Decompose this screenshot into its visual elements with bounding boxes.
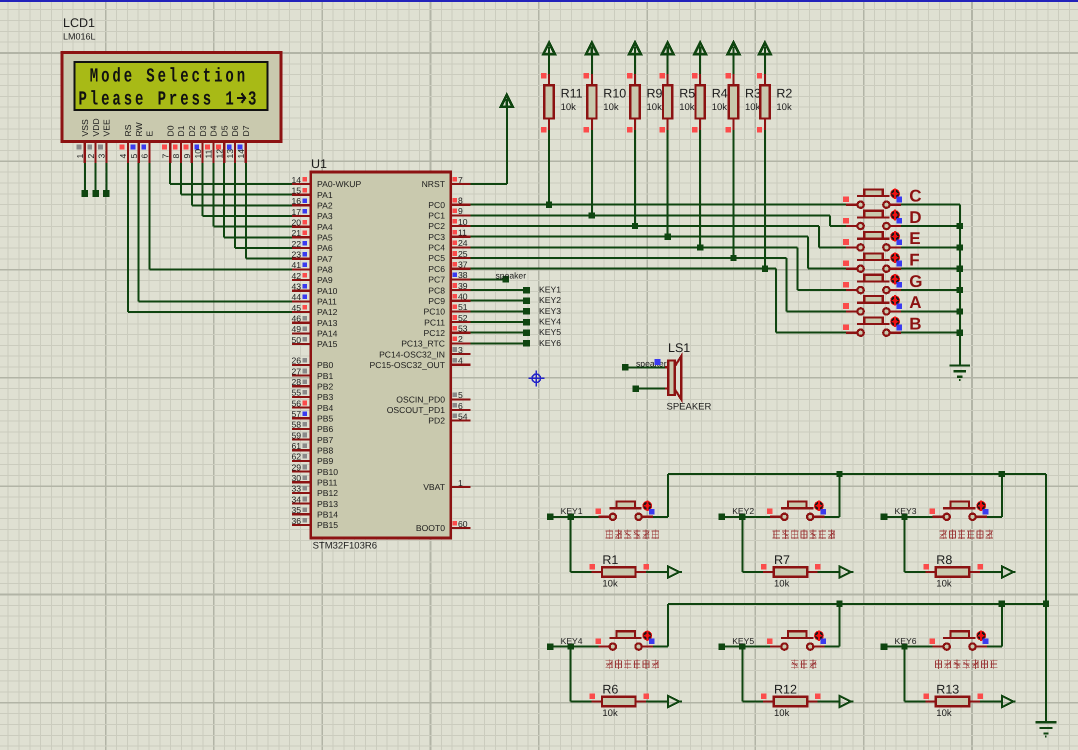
svg-text:46: 46 <box>291 314 301 324</box>
svg-text:PB10: PB10 <box>317 467 338 477</box>
svg-text:D4: D4 <box>209 125 219 136</box>
sheet border (top blue line) <box>0 0 1078 2</box>
wire PC4 to button row 4 <box>471 246 798 248</box>
button E <box>846 246 857 248</box>
svg-text:26: 26 <box>291 356 301 366</box>
pin 39 PC8 <box>451 289 471 291</box>
pin 23 PA7 <box>292 258 311 260</box>
svg-text:17: 17 <box>291 207 301 217</box>
svg-text:e: e <box>180 66 188 89</box>
pin 54 PD2 <box>451 419 471 421</box>
svg-text:PB1: PB1 <box>317 371 333 381</box>
pin 52 PC11 <box>451 321 471 323</box>
pin 24 PC4 <box>451 246 471 248</box>
svg-text:VBAT: VBAT <box>423 482 446 492</box>
svg-text:10k: 10k <box>776 102 792 113</box>
svg-text:PA11: PA11 <box>317 297 337 307</box>
svg-text:R5: R5 <box>679 87 695 101</box>
wire button B to bus <box>901 332 960 334</box>
svg-text:50: 50 <box>291 335 301 345</box>
svg-text:PA0-WKUP: PA0-WKUP <box>317 179 362 189</box>
svg-text:21: 21 <box>291 228 301 238</box>
pin 62 PB9 <box>292 460 311 462</box>
svg-text:B: B <box>909 315 921 334</box>
resistor R5 10k (vertical, pull-up) <box>662 43 674 55</box>
wire PC3 to button row 3 <box>471 236 809 238</box>
wire PC0 to button C <box>471 204 847 206</box>
pin 37 PC6 <box>451 268 471 270</box>
wire KEY1 to bus <box>653 516 668 518</box>
label KEY1 function (chinese) <box>606 530 613 539</box>
label KEY6 function (chinese) <box>935 660 942 669</box>
svg-text:PC10: PC10 <box>424 307 446 317</box>
svg-text:35: 35 <box>291 505 301 515</box>
svg-text:41: 41 <box>291 260 301 270</box>
svg-text:VDD: VDD <box>91 118 101 136</box>
svg-text:R9: R9 <box>647 87 663 101</box>
svg-text:61: 61 <box>291 441 301 451</box>
svg-text:U1: U1 <box>311 157 327 171</box>
svg-text:10: 10 <box>458 217 468 227</box>
svg-text:PB0: PB0 <box>317 360 333 370</box>
bus KEY4-KEY6 <box>668 603 1046 605</box>
svg-text:PC14-OSC32_IN: PC14-OSC32_IN <box>379 349 445 359</box>
svg-text:PA1: PA1 <box>317 190 333 200</box>
svg-text:10k: 10k <box>936 708 952 719</box>
resistor R8 10k <box>904 517 906 572</box>
svg-text:G: G <box>909 272 922 291</box>
svg-text:R11: R11 <box>561 87 583 101</box>
pin 43 PA10 <box>292 290 311 292</box>
svg-text:13: 13 <box>225 149 235 159</box>
pin 51 PC10 <box>451 310 471 312</box>
svg-text:28: 28 <box>291 377 301 387</box>
pin 3 PC14-OSC32_IN <box>451 353 471 355</box>
svg-text:PB11: PB11 <box>317 478 338 488</box>
origin marker <box>528 370 544 386</box>
wire KEY5 to bus <box>825 646 840 648</box>
wire D4 to PA4 <box>212 163 214 227</box>
svg-text:R1: R1 <box>602 553 618 567</box>
wire D0 to PA0 <box>169 163 171 184</box>
svg-text:NRST: NRST <box>422 179 446 189</box>
svg-text:PA4: PA4 <box>317 222 333 232</box>
button C <box>846 204 857 206</box>
svg-text:D5: D5 <box>219 125 229 136</box>
svg-text:5: 5 <box>129 154 139 159</box>
pin 56 PB4 <box>292 407 311 409</box>
wire RW to PA11 <box>138 163 140 301</box>
pin 60 BOOT0 <box>451 527 471 529</box>
svg-text:R7: R7 <box>774 553 790 567</box>
svg-text:s: s <box>203 89 211 112</box>
svg-text:33: 33 <box>291 484 301 494</box>
svg-text:9: 9 <box>458 206 463 216</box>
resistor R10 10k (vertical, pull-up) <box>586 43 598 55</box>
button G <box>846 289 857 291</box>
resistor R12 10k <box>741 647 743 702</box>
svg-text:7: 7 <box>458 175 463 185</box>
net label speaker (PC7) <box>471 278 506 280</box>
ground (buttons) <box>949 365 970 367</box>
svg-text:PA8: PA8 <box>317 265 333 275</box>
svg-text:speaker: speaker <box>496 270 527 280</box>
key button KEY3 <box>881 514 888 521</box>
svg-text:KEY4: KEY4 <box>539 317 561 327</box>
svg-text:LM016L: LM016L <box>63 32 96 42</box>
svg-text:t: t <box>203 66 211 89</box>
svg-text:PC0: PC0 <box>428 200 445 210</box>
svg-text:10k: 10k <box>679 102 695 113</box>
wire button D to bus <box>901 225 960 227</box>
svg-text:e: e <box>124 66 132 89</box>
svg-text:R4: R4 <box>712 87 728 101</box>
svg-text:6: 6 <box>140 154 150 159</box>
svg-text:12: 12 <box>214 149 224 159</box>
svg-text:PC3: PC3 <box>428 232 445 242</box>
svg-text:s: s <box>192 89 200 112</box>
svg-text:PA10: PA10 <box>317 286 338 296</box>
svg-text:PC9: PC9 <box>428 296 445 306</box>
svg-text:KEY6: KEY6 <box>895 636 917 646</box>
svg-text:57: 57 <box>291 409 301 419</box>
resistor R11 10k (vertical, pull-up) <box>543 43 555 55</box>
svg-text:P: P <box>79 89 87 112</box>
svg-text:E: E <box>909 229 920 248</box>
pin 11 PC3 <box>451 236 471 238</box>
wire NRST <box>506 107 508 184</box>
button A <box>846 310 857 312</box>
ground (keys) <box>1036 721 1057 723</box>
svg-text:KEY5: KEY5 <box>732 636 754 646</box>
svg-text:R8: R8 <box>936 553 952 567</box>
svg-text:PC7: PC7 <box>428 275 445 285</box>
pin 8 PC0 <box>451 204 471 206</box>
power arrow for NRST <box>501 95 513 107</box>
svg-text:e: e <box>135 89 143 112</box>
net label KEY2 (PC9) <box>471 300 527 302</box>
svg-text:l: l <box>90 89 98 112</box>
pin 6 OSCOUT_PD1 <box>451 409 471 411</box>
resistor R6 10k <box>570 647 572 702</box>
svg-text:44: 44 <box>291 292 301 302</box>
pin 61 PB8 <box>292 449 311 451</box>
svg-text:30: 30 <box>291 473 301 483</box>
wire PC2 to button row 2 <box>471 225 819 227</box>
pin 44 PA11 <box>292 300 311 302</box>
pin 40 PC9 <box>451 300 471 302</box>
svg-text:PC1: PC1 <box>428 211 445 221</box>
net label KEY4 (PC11) <box>471 321 527 323</box>
pin 53 PC12 <box>451 332 471 334</box>
svg-text:38: 38 <box>458 270 468 280</box>
pin 59 PB7 <box>292 439 311 441</box>
svg-text:37: 37 <box>458 260 468 270</box>
wire D5 to PA5 <box>223 163 225 237</box>
svg-text:i: i <box>214 66 222 89</box>
svg-text:25: 25 <box>458 249 468 259</box>
svg-text:PB14: PB14 <box>317 510 338 520</box>
svg-text:PA7: PA7 <box>317 254 333 264</box>
svg-text:43: 43 <box>291 282 301 292</box>
key button KEY6 <box>881 643 888 650</box>
svg-text:PA9: PA9 <box>317 275 333 285</box>
svg-text:KEY2: KEY2 <box>539 295 561 305</box>
pin 58 PB6 <box>292 428 311 430</box>
svg-text:e: e <box>180 89 188 112</box>
svg-text:PB8: PB8 <box>317 446 333 456</box>
svg-text:5: 5 <box>458 390 463 400</box>
svg-text:PB6: PB6 <box>317 424 333 434</box>
svg-text:10k: 10k <box>602 708 618 719</box>
svg-text:PA2: PA2 <box>317 201 333 211</box>
svg-text:10k: 10k <box>712 102 728 113</box>
svg-text:1: 1 <box>225 89 233 112</box>
svg-text:29: 29 <box>291 462 301 472</box>
resistor R2 10k (vertical, pull-up) <box>759 43 771 55</box>
resistor R7 10k <box>741 517 743 572</box>
svg-text:R6: R6 <box>602 683 618 697</box>
svg-text:KEY5: KEY5 <box>539 327 561 337</box>
resistor R9 10k (vertical, pull-up) <box>629 43 641 55</box>
wire button C to bus <box>901 204 960 206</box>
svg-text:LCD1: LCD1 <box>63 16 95 30</box>
pin 46 PA13 <box>292 322 311 324</box>
svg-text:KEY4: KEY4 <box>561 636 583 646</box>
svg-text:2: 2 <box>86 154 96 159</box>
svg-text:PA6: PA6 <box>317 243 333 253</box>
svg-text:3: 3 <box>97 154 107 159</box>
svg-text:39: 39 <box>458 281 468 291</box>
LCD screen <box>75 62 268 110</box>
svg-text:R13: R13 <box>936 683 959 697</box>
svg-text:45: 45 <box>291 303 301 313</box>
pin 42 PA9 <box>292 279 311 281</box>
svg-text:20: 20 <box>291 218 301 228</box>
pin 5 OSCIN_PD0 <box>451 398 471 400</box>
label KEY3 function (chinese) <box>940 530 947 539</box>
svg-text:PC4: PC4 <box>428 243 445 253</box>
svg-text:PB3: PB3 <box>317 392 333 402</box>
svg-text:R3: R3 <box>745 87 761 101</box>
svg-text:14: 14 <box>291 175 301 185</box>
svg-text:8: 8 <box>458 196 463 206</box>
svg-text:PB7: PB7 <box>317 435 333 445</box>
svg-text:LS1: LS1 <box>668 341 690 355</box>
pin 9 PC1 <box>451 214 471 216</box>
svg-text:S: S <box>146 66 154 89</box>
svg-text:R10: R10 <box>603 87 626 101</box>
pin 30 PB11 <box>292 481 311 483</box>
wire D6 to PA6 <box>234 163 236 248</box>
svg-text:PB12: PB12 <box>317 488 338 498</box>
wire E to PA8 <box>149 163 151 269</box>
svg-text:10: 10 <box>193 149 203 159</box>
svg-text:58: 58 <box>291 420 301 430</box>
svg-text:PC8: PC8 <box>428 285 445 295</box>
wire VSS dangling <box>84 163 86 193</box>
key button KEY4 <box>547 643 554 650</box>
pin 10 PC2 <box>451 225 471 227</box>
svg-text:PB4: PB4 <box>317 403 333 413</box>
pin 1 VBAT <box>451 486 471 488</box>
pin 45 PA12 <box>292 311 311 313</box>
key button KEY2 <box>718 514 725 521</box>
pin 14 PA0-WKUP <box>292 183 311 185</box>
svg-text:PA14: PA14 <box>317 329 338 339</box>
svg-text:PC11: PC11 <box>424 317 445 327</box>
svg-text:10k: 10k <box>774 708 790 719</box>
svg-text:c: c <box>192 66 200 89</box>
svg-text:PC5: PC5 <box>428 253 445 263</box>
svg-text:PC2: PC2 <box>428 221 445 231</box>
wire button G to bus <box>901 289 960 291</box>
svg-text:10k: 10k <box>745 102 761 113</box>
svg-text:PB5: PB5 <box>317 413 333 423</box>
resistor R4 10k (vertical, pull-up) <box>694 43 706 55</box>
wire VEE dangling <box>105 163 107 193</box>
svg-text:PB13: PB13 <box>317 499 338 509</box>
svg-text:n: n <box>237 66 245 89</box>
resistor R1 10k <box>570 517 572 572</box>
resistor R3 10k (vertical, pull-up) <box>728 43 740 55</box>
svg-text:27: 27 <box>291 366 301 376</box>
svg-text:KEY2: KEY2 <box>732 506 754 516</box>
svg-text:40: 40 <box>458 292 468 302</box>
svg-text:6: 6 <box>458 401 463 411</box>
svg-text:51: 51 <box>458 302 468 312</box>
svg-text:4: 4 <box>458 356 463 366</box>
wire D3 to PA3 <box>202 163 204 216</box>
svg-text:KEY3: KEY3 <box>895 506 917 516</box>
svg-text:8: 8 <box>171 154 181 159</box>
svg-text:22: 22 <box>291 239 301 249</box>
wire button E to bus <box>901 246 960 248</box>
svg-text:42: 42 <box>291 271 301 281</box>
svg-text:D0: D0 <box>165 125 175 136</box>
svg-text:10k: 10k <box>936 579 952 590</box>
label KEY2 function (chinese) <box>773 530 780 539</box>
pin 35 PB14 <box>292 513 311 515</box>
svg-text:1: 1 <box>458 478 463 488</box>
svg-text:24: 24 <box>458 238 468 248</box>
svg-text:KEY1: KEY1 <box>561 506 583 516</box>
wire KEY6 to bus <box>987 646 1002 648</box>
svg-text:3: 3 <box>458 345 463 355</box>
wire button F to bus <box>901 268 960 270</box>
button D <box>846 225 857 227</box>
button F <box>846 268 857 270</box>
svg-text:10k: 10k <box>603 102 619 113</box>
pin 33 PB12 <box>292 492 311 494</box>
svg-text:11: 11 <box>458 228 467 238</box>
pin 27 PB1 <box>292 375 311 377</box>
wire KEY4 to bus <box>653 646 668 648</box>
wire bus to ground <box>1045 474 1047 722</box>
svg-text:34: 34 <box>291 494 301 504</box>
svg-text:VSS: VSS <box>80 119 90 136</box>
svg-text:BOOT0: BOOT0 <box>416 523 445 533</box>
pin 21 PA5 <box>292 236 311 238</box>
svg-text:4: 4 <box>118 154 128 159</box>
svg-text:14: 14 <box>236 149 246 159</box>
svg-text:36: 36 <box>291 516 301 526</box>
svg-text:49: 49 <box>291 324 301 334</box>
pin 26 PB0 <box>292 364 311 366</box>
pin 38 PC7 <box>451 278 471 280</box>
svg-text:VEE: VEE <box>102 119 112 136</box>
svg-text:PA15: PA15 <box>317 339 338 349</box>
svg-text:e: e <box>101 89 109 112</box>
svg-text:P: P <box>158 89 166 112</box>
svg-text:l: l <box>169 66 177 89</box>
pin 57 PB5 <box>292 417 311 419</box>
pin 28 PB2 <box>292 385 311 387</box>
pin 55 PB3 <box>292 396 311 398</box>
svg-text:60: 60 <box>458 519 468 529</box>
pin 50 PA15 <box>292 343 311 345</box>
svg-text:F: F <box>909 251 919 270</box>
pin 20 PA4 <box>292 226 311 228</box>
wire KEY3 to bus <box>987 516 1002 518</box>
svg-text:10k: 10k <box>774 579 790 590</box>
pin 49 PA14 <box>292 332 311 334</box>
svg-text:23: 23 <box>291 250 301 260</box>
pin 7 NRST <box>451 183 471 185</box>
svg-text:D3: D3 <box>198 125 208 136</box>
pin 15 PA1 <box>292 194 311 196</box>
svg-text:59: 59 <box>291 430 301 440</box>
svg-text:1: 1 <box>75 154 85 159</box>
svg-text:15: 15 <box>291 186 301 196</box>
svg-text:PB15: PB15 <box>317 520 338 530</box>
svg-text:PD2: PD2 <box>428 416 445 426</box>
svg-text:KEY3: KEY3 <box>539 306 561 316</box>
svg-text:11: 11 <box>204 149 214 158</box>
label KEY5 function (chinese) <box>791 660 798 669</box>
wire D7 to PA7 <box>245 163 247 259</box>
wire D2 to PA2 <box>191 163 193 205</box>
svg-text:speaker: speaker <box>636 358 667 368</box>
wire button A to bus <box>901 310 960 312</box>
wire RS to PA12 <box>127 163 129 312</box>
net label KEY6 (PC13) <box>471 342 527 344</box>
resistor R13 10k <box>904 647 906 702</box>
svg-text:A: A <box>909 293 921 312</box>
svg-text:KEY1: KEY1 <box>539 285 561 295</box>
svg-text:C: C <box>909 187 921 206</box>
svg-text:53: 53 <box>458 324 468 334</box>
svg-text:OSCOUT_PD1: OSCOUT_PD1 <box>387 405 445 415</box>
svg-text:KEY6: KEY6 <box>539 338 561 348</box>
pin 2 PC13_RTC <box>451 342 471 344</box>
pin 22 PA6 <box>292 247 311 249</box>
svg-text:s: s <box>124 89 132 112</box>
svg-text:PA3: PA3 <box>317 211 333 221</box>
svg-text:3: 3 <box>248 89 256 112</box>
svg-text:a: a <box>112 89 121 112</box>
net label KEY1 (PC8) <box>471 289 527 291</box>
svg-text:D: D <box>909 208 921 227</box>
key button KEY5 <box>718 643 725 650</box>
svg-text:o: o <box>101 66 109 89</box>
wire PC5 to button row 5 <box>471 257 787 259</box>
pin 17 PA3 <box>292 215 311 217</box>
svg-text:62: 62 <box>291 452 301 462</box>
svg-text:e: e <box>158 66 166 89</box>
svg-text:55: 55 <box>291 388 301 398</box>
button B <box>846 332 857 334</box>
